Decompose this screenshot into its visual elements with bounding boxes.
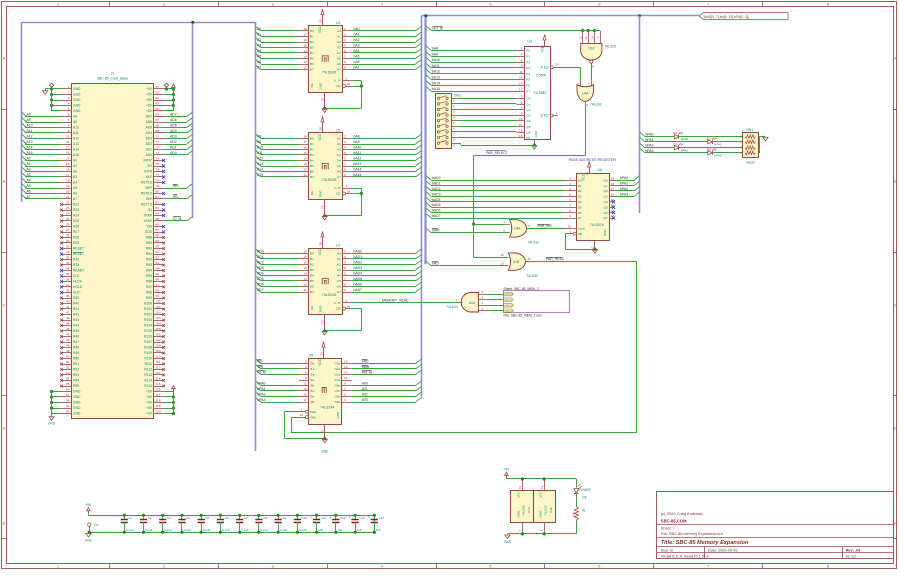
svg-text:6: 6 (482, 296, 484, 300)
svg-text:bPA1: bPA1 (258, 387, 266, 391)
svg-text:15: 15 (303, 266, 307, 270)
svg-text:D: D (894, 426, 897, 431)
svg-text:P1: P1 (526, 55, 530, 59)
svg-text:63: 63 (156, 96, 160, 100)
wire J1 RD* to bus (164, 198, 187, 200)
svg-text:PAR_SELECT: PAR_SELECT (486, 151, 508, 155)
svg-text:12: 12 (303, 60, 307, 64)
svg-text:KiCad E.D.A. kicad (5.1.5)-3: KiCad E.D.A. kicad (5.1.5)-3 (661, 554, 709, 558)
svg-text:12: 12 (500, 253, 504, 257)
sheet pin MRD3 (504, 309, 514, 313)
svg-text:A9: A9 (27, 118, 31, 122)
svg-text:4: 4 (503, 220, 505, 224)
svg-text:89: 89 (156, 239, 160, 243)
svg-text:51: 51 (66, 360, 70, 364)
svg-text:Title: SBC-85 Memory Expansion: Title: SBC-85 Memory Expansion (661, 540, 749, 546)
svg-text:A1: A1 (337, 142, 341, 146)
svg-text:P2: P2 (526, 60, 530, 64)
svg-text:+5V: +5V (146, 406, 153, 410)
svg-text:bA0: bA0 (354, 27, 360, 31)
svg-text:GND: GND (73, 98, 81, 102)
U1A output wire MEMORY_READ side (460, 302, 462, 304)
U7 VCC pin (322, 237, 324, 248)
svg-text:19: 19 (66, 184, 70, 188)
svg-text:VCC: VCC (517, 490, 521, 497)
svg-text:84: 84 (156, 212, 160, 216)
svg-text:RST7.5: RST7.5 (141, 203, 152, 207)
svg-text:15: 15 (303, 393, 307, 397)
svg-text:D2: D2 (707, 136, 711, 140)
wire J1 IO/M* to bus (164, 220, 187, 222)
svg-text:GND: GND (73, 87, 81, 91)
capacitor C9 0.1uF (278, 515, 280, 519)
svg-text:20: 20 (540, 45, 544, 49)
capacitor C14 1uF (374, 515, 376, 519)
svg-text:B4: B4 (310, 159, 314, 163)
svg-text:R93: R93 (146, 263, 152, 267)
svg-text:A8: A8 (257, 135, 261, 139)
svg-text:bA14: bA14 (354, 168, 362, 172)
svg-text:Q3: Q3 (526, 114, 530, 118)
ground symbol at J1 top-left (45, 89, 47, 91)
svg-text:A→B: A→B (334, 186, 340, 190)
svg-text:19: 19 (611, 176, 615, 180)
svg-text:0.1uF: 0.1uF (260, 528, 268, 532)
svg-text:AD5: AD5 (170, 124, 177, 128)
svg-text:A13: A13 (257, 162, 263, 166)
svg-text:O3a: O3a (335, 378, 341, 382)
svg-text:SID: SID (147, 225, 153, 229)
ground symbol below U5 (322, 216, 327, 220)
svg-text:7: 7 (521, 106, 523, 110)
svg-text:34: 34 (66, 267, 70, 271)
svg-text:4: 4 (344, 261, 346, 265)
svg-text:A13: A13 (27, 140, 33, 144)
svg-text:Q EQ: Q EQ (540, 114, 549, 118)
svg-text:PAGE ADDRESS REGISTER: PAGE ADDRESS REGISTER (569, 158, 617, 162)
wire U4A output down to PAR_SELECT (585, 101, 587, 155)
svg-text:R23: R23 (73, 208, 79, 212)
svg-text:D5: D5 (578, 205, 582, 209)
svg-text:7: 7 (344, 55, 346, 59)
svg-text:52: 52 (66, 366, 70, 370)
svg-text:A12: A12 (73, 137, 79, 141)
svg-text:D2: D2 (578, 189, 582, 193)
svg-text:R104: R104 (144, 324, 152, 328)
svg-text:O3b: O3b (335, 400, 341, 404)
svg-text:bA8: bA8 (354, 135, 360, 139)
svg-text:20: 20 (318, 19, 322, 23)
bus right-of-buffers vertical x=421.8 (421, 16, 423, 397)
svg-text:10: 10 (321, 320, 325, 324)
svg-text:OEa: OEa (310, 410, 316, 414)
ground symbol below U7 (322, 331, 327, 335)
wire PAR_SELECT vertical (473, 155, 475, 257)
svg-text:RST5.5: RST5.5 (141, 181, 152, 185)
svg-text:8: 8 (344, 283, 346, 287)
svg-text:19: 19 (555, 62, 559, 66)
svg-text:R55: R55 (73, 384, 79, 388)
svg-text:0.1uF: 0.1uF (241, 528, 249, 532)
svg-text:A7: A7 (27, 195, 31, 199)
power unit U1C 74LS20 (511, 491, 534, 523)
svg-text:R32: R32 (73, 258, 79, 262)
svg-text:R53: R53 (73, 373, 79, 377)
svg-text:A3: A3 (257, 44, 261, 48)
svg-text:119: 119 (156, 404, 161, 408)
svg-text:62: 62 (156, 91, 160, 95)
svg-text:VCC: VCC (318, 248, 322, 255)
svg-text:A7: A7 (337, 175, 341, 179)
svg-text:GND: GND (603, 229, 607, 237)
svg-text:bA10: bA10 (354, 146, 362, 150)
svg-text:R39: R39 (73, 296, 79, 300)
svg-text:B3: B3 (310, 268, 314, 272)
svg-text:+5V: +5V (146, 109, 153, 113)
svg-text:6: 6 (569, 198, 571, 202)
svg-text:+5V: +5V (146, 104, 153, 108)
svg-text:bPA0: bPA0 (258, 382, 266, 386)
svg-text:C11: C11 (321, 516, 327, 520)
svg-text:96: 96 (156, 278, 160, 282)
sheet pin MRD0 (504, 292, 514, 296)
diode D1 (674, 134, 678, 138)
svg-text:B7: B7 (310, 175, 314, 179)
svg-text:U4A: U4A (582, 92, 589, 96)
svg-text:R99: R99 (146, 296, 152, 300)
svg-text:2: 2 (68, 91, 70, 95)
svg-text:1uF: 1uF (376, 528, 381, 532)
capacitor C8 0.1uF (258, 515, 260, 519)
svg-text:69: 69 (156, 129, 160, 133)
svg-text:+: + (329, 516, 331, 520)
svg-text:Q5: Q5 (604, 205, 608, 209)
svg-text:87: 87 (156, 228, 160, 232)
svg-text:AD1: AD1 (257, 255, 264, 259)
svg-text:R109: R109 (144, 351, 152, 355)
svg-text:A0: A0 (73, 159, 77, 163)
svg-text:Id: 1/2: Id: 1/2 (846, 554, 857, 558)
svg-text:Q4: Q4 (526, 119, 530, 123)
svg-text:bA7: bA7 (354, 66, 360, 70)
svg-text:E: E (894, 521, 897, 526)
svg-text:A4: A4 (73, 181, 77, 185)
svg-text:J1: J1 (111, 72, 115, 76)
svg-text:A4: A4 (337, 159, 341, 163)
U3 P=Q output pin 19 (550, 66, 553, 69)
svg-text:9: 9 (344, 173, 346, 177)
svg-text:D4: D4 (578, 200, 582, 204)
hierarchical sheet SBC-85_MEM_2 (504, 291, 570, 313)
svg-text:106: 106 (156, 333, 161, 337)
svg-text:72: 72 (156, 146, 160, 150)
U8 GND pin (324, 424, 326, 438)
svg-text:bAD3: bAD3 (354, 266, 363, 270)
U5 GND pin and enable wiring (324, 200, 326, 216)
svg-text:C: C (3, 303, 6, 308)
svg-text:COMP: COMP (536, 74, 547, 78)
svg-text:108: 108 (156, 344, 161, 348)
svg-text:GND: GND (319, 190, 323, 198)
svg-text:HOLD: HOLD (73, 285, 83, 289)
svg-text:21: 21 (66, 195, 70, 199)
U1A input wires to sheet pins (478, 294, 487, 296)
svg-text:AD1: AD1 (170, 146, 177, 150)
svg-text:12: 12 (66, 146, 70, 150)
svg-text:+5V: +5V (146, 395, 153, 399)
svg-text:+5V: +5V (146, 98, 153, 102)
svg-text:O1b: O1b (335, 389, 341, 393)
svg-text:I0a: I0a (310, 362, 315, 366)
svg-text:bAD7: bAD7 (354, 288, 363, 292)
svg-text:60: 60 (66, 410, 70, 414)
svg-text:5: 5 (503, 229, 505, 233)
svg-text:11: 11 (304, 66, 307, 70)
svg-text:109: 109 (156, 349, 161, 353)
svg-text:RD: RD (258, 360, 263, 364)
svg-text:97: 97 (156, 283, 160, 287)
capacitor C3 0.1uF (162, 515, 164, 519)
svg-text:Q3: Q3 (604, 195, 608, 199)
svg-text:71: 71 (156, 140, 160, 144)
svg-text:94: 94 (156, 267, 160, 271)
svg-text:A9: A9 (73, 120, 77, 124)
svg-text:R95: R95 (146, 274, 152, 278)
svg-text:5: 5 (344, 266, 346, 270)
svg-text:bA15: bA15 (354, 173, 362, 177)
svg-text:bA9: bA9 (354, 140, 360, 144)
svg-text:+5V: +5V (146, 401, 153, 405)
svg-text:bPA2: bPA2 (258, 393, 266, 397)
svg-text:GND: GND (534, 130, 538, 138)
U4B input wires (474, 224, 506, 226)
svg-text:8: 8 (68, 124, 70, 128)
svg-text:8: 8 (569, 209, 571, 213)
svg-text:OEb: OEb (310, 415, 316, 419)
svg-text:A12: A12 (27, 135, 33, 139)
svg-text:111: 111 (156, 360, 161, 364)
svg-text:U4E: U4E (549, 507, 553, 513)
svg-text:B: B (894, 179, 897, 184)
svg-text:R42: R42 (73, 313, 79, 317)
svg-text:91: 91 (156, 250, 160, 254)
svg-text:74: 74 (156, 157, 160, 161)
svg-text:90: 90 (156, 245, 160, 249)
svg-text:C7: C7 (244, 516, 248, 520)
svg-text:B2: B2 (310, 263, 314, 267)
svg-text:4: 4 (68, 102, 70, 106)
svg-text:bAD7: bAD7 (432, 214, 441, 218)
svg-text:48: 48 (66, 344, 70, 348)
svg-text:bIO_W: bIO_W (433, 26, 444, 30)
svg-text:SO: SO (147, 164, 152, 168)
svg-text:+: + (349, 516, 351, 520)
svg-text:4: 4 (521, 53, 523, 57)
wires J1 address pins A0-A7 to bus (25, 160, 61, 162)
svg-text:+5V: +5V (86, 503, 93, 507)
svg-text:B1: B1 (310, 35, 314, 39)
svg-text:GND: GND (319, 82, 323, 90)
svg-text:bA3: bA3 (354, 44, 360, 48)
svg-text:A4: A4 (257, 49, 261, 53)
svg-text:19: 19 (300, 413, 304, 417)
svg-text:WR*: WR* (145, 186, 152, 190)
svg-text:A1: A1 (337, 35, 341, 39)
U18 input pins from bIO_W wire (582, 31, 584, 44)
svg-text:5: 5 (68, 107, 70, 111)
svg-text:U7: U7 (336, 244, 340, 248)
svg-text:A4: A4 (27, 179, 31, 183)
svg-text:99: 99 (156, 294, 160, 298)
svg-text:R111: R111 (145, 362, 153, 366)
svg-text:bA13: bA13 (354, 162, 362, 166)
svg-text:I2a: I2a (310, 373, 315, 377)
svg-text:Q6: Q6 (526, 131, 530, 135)
svg-text:14: 14 (518, 486, 522, 490)
svg-text:bPA1: bPA1 (714, 142, 722, 146)
wires J1 address pins A8-A15 to bus (25, 116, 61, 118)
ground symbol below U6 (592, 250, 597, 254)
svg-text:R29: R29 (73, 241, 79, 245)
svg-text:4: 4 (569, 187, 571, 191)
svg-text:R54: R54 (73, 379, 79, 383)
svg-text:76: 76 (156, 168, 160, 172)
svg-text:A6: A6 (337, 170, 341, 174)
ground symbol below U3 (532, 146, 537, 150)
svg-text:12: 12 (584, 36, 588, 40)
svg-text:R110: R110 (144, 357, 152, 361)
svg-text:File: SBC-85 Memory Expansion.: File: SBC-85 Memory Expansion.sch (661, 532, 723, 536)
svg-text:A4: A4 (337, 51, 341, 55)
svg-text:6: 6 (344, 157, 346, 161)
svg-text:B6: B6 (310, 285, 314, 289)
svg-text:54: 54 (66, 377, 70, 381)
svg-text:A6: A6 (257, 60, 261, 64)
svg-text:GND: GND (504, 540, 512, 544)
svg-text:AD4: AD4 (170, 129, 177, 133)
svg-text:A0: A0 (257, 27, 261, 31)
svg-text:4: 4 (305, 365, 307, 369)
svg-text:READY: READY (73, 269, 85, 273)
svg-text:AD6: AD6 (170, 118, 177, 122)
svg-text:22: 22 (66, 201, 70, 205)
svg-text:ALE: ALE (146, 175, 153, 179)
svg-text:74LS32: 74LS32 (528, 241, 540, 245)
svg-text:1uF: 1uF (357, 528, 362, 532)
svg-text:14: 14 (66, 157, 70, 161)
wire PAR_READ from U4B2 to U8 enables (525, 261, 636, 263)
svg-text:10: 10 (590, 36, 594, 40)
svg-text:bPA2: bPA2 (620, 187, 628, 191)
svg-text:P3: P3 (526, 66, 530, 70)
svg-text:81: 81 (156, 195, 160, 199)
svg-text:14: 14 (303, 49, 307, 53)
capacitor C12 1uF (335, 515, 337, 519)
svg-text:80: 80 (156, 190, 160, 194)
svg-text:11: 11 (304, 173, 307, 177)
svg-text:R1: R1 (582, 509, 586, 513)
svg-text:bPA3: bPA3 (714, 153, 722, 157)
test point TP1 (88, 523, 91, 526)
svg-text:MRD0: MRD0 (504, 292, 513, 296)
svg-text:R22: R22 (73, 203, 79, 207)
svg-text:17: 17 (303, 255, 307, 259)
svg-text:AD4: AD4 (146, 131, 153, 135)
svg-text:93: 93 (156, 261, 160, 265)
svg-text:R103: R103 (144, 318, 152, 322)
svg-text:2: 2 (344, 135, 346, 139)
svg-text:bPA3: bPA3 (258, 398, 266, 402)
svg-text:R101: R101 (144, 307, 152, 311)
svg-text:SBC-85.COM: SBC-85.COM (661, 519, 687, 524)
power flag PWR_FLAG at J1 top-left (49, 83, 53, 87)
svg-text:GND: GND (85, 539, 93, 543)
svg-text:0.1uF: 0.1uF (126, 528, 134, 532)
svg-text:110: 110 (156, 355, 161, 359)
svg-text:13: 13 (578, 36, 582, 40)
OR gate U4A 74LS32 (577, 85, 594, 102)
wire J1 +5V pins 61-65 (164, 88, 174, 90)
svg-text:82: 82 (156, 201, 160, 205)
svg-text:A0: A0 (337, 137, 341, 141)
svg-text:4: 4 (344, 146, 346, 150)
svg-text:P EQ: P EQ (541, 66, 549, 70)
svg-text:B: B (3, 179, 6, 184)
svg-text:1: 1 (346, 76, 348, 80)
svg-text:R107: R107 (144, 340, 152, 344)
svg-text:1: 1 (68, 85, 70, 89)
ground symbol below TP1 (88, 532, 90, 533)
svg-text:R47: R47 (73, 340, 79, 344)
svg-text:29: 29 (66, 239, 70, 243)
svg-text:I3b: I3b (310, 400, 315, 404)
svg-text:33: 33 (66, 261, 70, 265)
svg-text:A7: A7 (257, 66, 261, 70)
svg-text:A6: A6 (337, 285, 341, 289)
svg-text:7: 7 (569, 203, 571, 207)
svg-text:74LS32: 74LS32 (526, 274, 538, 278)
svg-text:43: 43 (66, 316, 70, 320)
svg-text:13: 13 (500, 262, 504, 266)
svg-text:44: 44 (66, 322, 70, 326)
svg-text:26: 26 (66, 223, 70, 227)
capacitor C1 0.1uF (124, 515, 126, 519)
svg-text:A10: A10 (73, 126, 79, 130)
svg-text:OE: OE (310, 191, 314, 195)
U4A input pins (580, 80, 582, 86)
svg-text:79: 79 (156, 184, 160, 188)
svg-text:83: 83 (156, 206, 160, 210)
svg-text:CE: CE (336, 192, 340, 196)
svg-text:C2: C2 (148, 516, 152, 520)
svg-text:4: 4 (455, 298, 457, 302)
svg-text:17: 17 (303, 33, 307, 37)
svg-text:11: 11 (304, 382, 307, 386)
wire J1 GND pins 56-60 to ground (52, 391, 62, 393)
svg-text:C14: C14 (379, 516, 385, 520)
svg-text:A3: A3 (337, 268, 341, 272)
svg-text:11: 11 (568, 224, 571, 228)
wire U18 output to U4A (591, 63, 593, 80)
svg-text:A03: A03 (362, 398, 368, 402)
bus vertical at AD column x=192.8 (192, 22, 194, 218)
svg-text:4x330: 4x330 (746, 161, 755, 165)
svg-text:bAD2: bAD2 (354, 261, 363, 265)
svg-text:GND: GND (517, 510, 521, 518)
svg-text:R112: R112 (144, 368, 152, 372)
svg-text:B1: B1 (310, 257, 314, 261)
svg-text:D6: D6 (578, 211, 582, 215)
